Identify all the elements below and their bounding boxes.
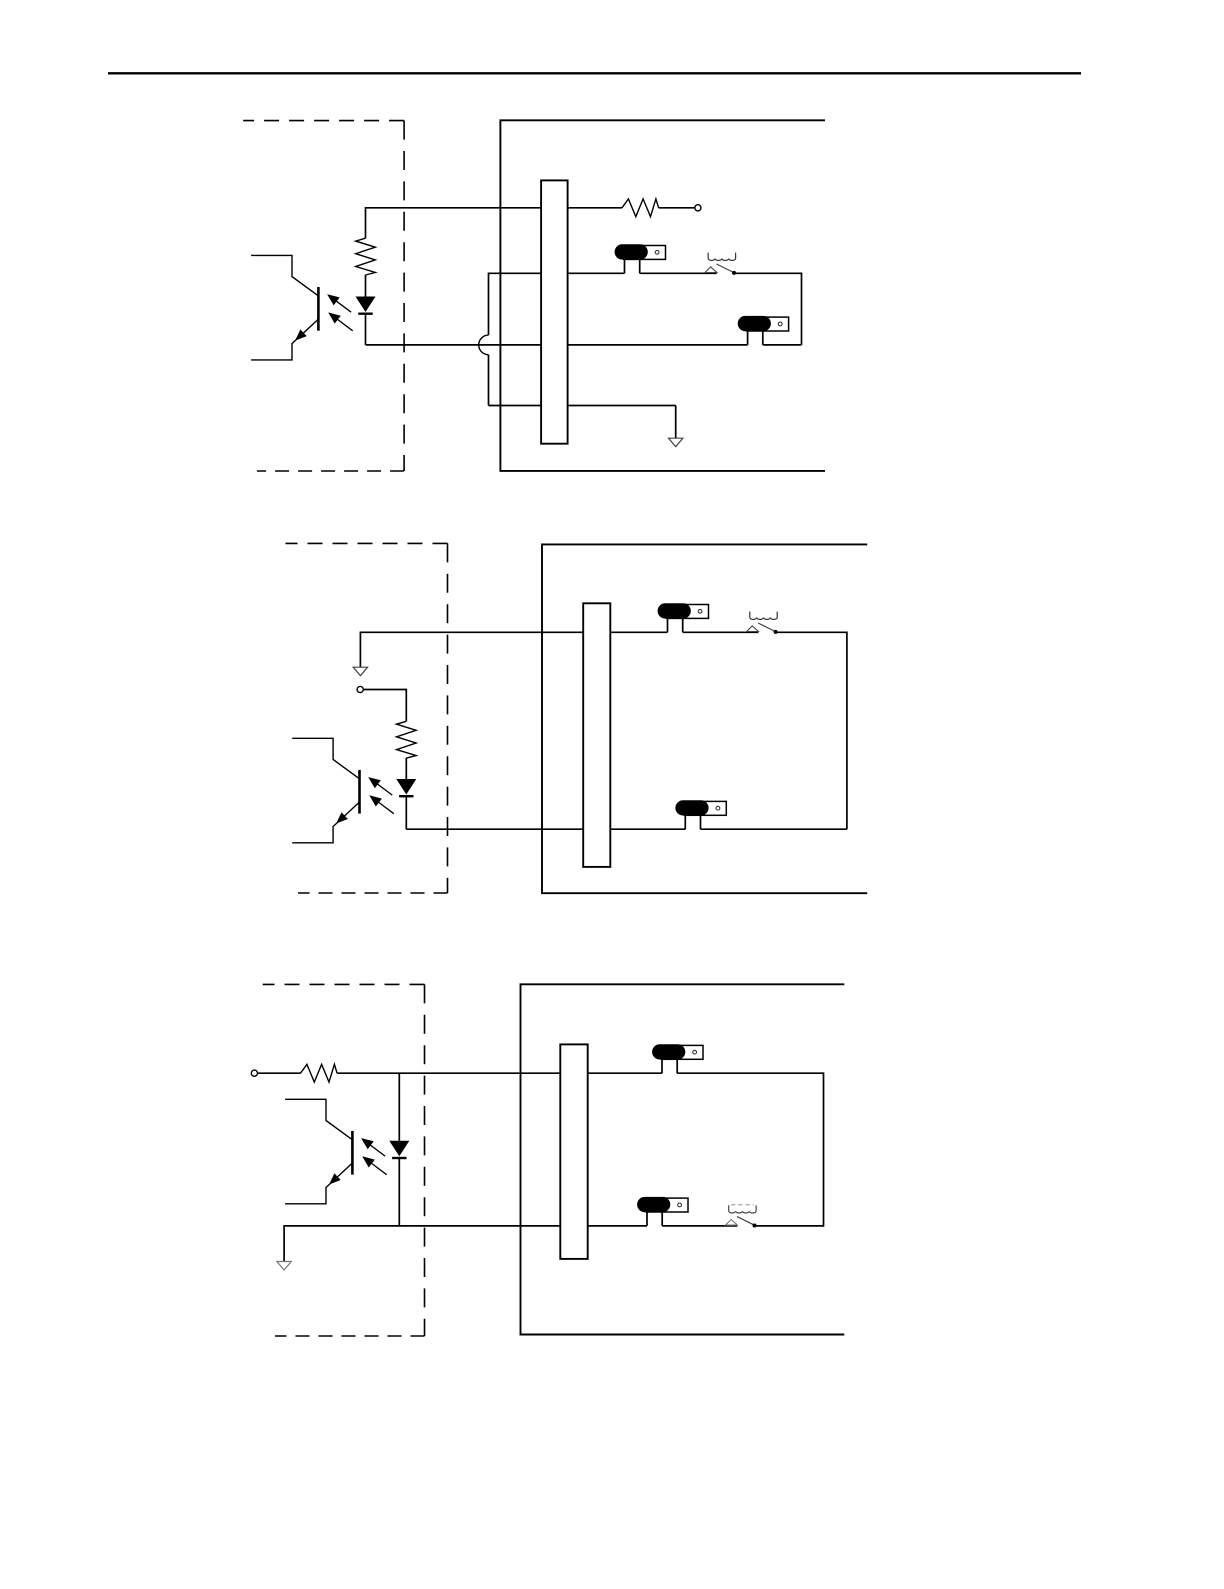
circuit 2: wire, LED D2 cathode to return net (405, 797, 407, 830)
circuit 3: return net, jumper W6 to relay contact (662, 1225, 737, 1227)
optocoupler U1 light arrow 2 (330, 314, 353, 331)
jumper W6 body (637, 1197, 670, 1212)
relay K1 contact node (732, 271, 736, 275)
optocoupler U2 phototransistor collector lead (292, 738, 359, 779)
circuit 1: wire, return net connector to jumper W2 (568, 344, 748, 346)
relay K3 coil dashed top mark (731, 1204, 754, 1206)
circuit 3: wire, drop to ground (283, 1225, 285, 1261)
circuit 3: wire, jumper W5 to right edge (677, 1072, 823, 1074)
jumper W3 body (658, 603, 691, 618)
circuit 3: wire, LED branch down (398, 1073, 400, 1141)
jumper W2 socket outline (747, 317, 789, 331)
circuit 3: inner right edge (823, 1072, 825, 1226)
resistor R1 (356, 238, 376, 275)
relay K1 moving contact blade (717, 264, 734, 273)
ground symbol (circuit 3) (277, 1262, 291, 1271)
optocoupler U1 phototransistor collector lead (251, 255, 318, 296)
jumper W1 leads (625, 259, 640, 273)
circuit 2: inner right edge (846, 632, 848, 830)
jumper W3 socket outline (667, 605, 709, 619)
circuit 1: dashed boundary, bottom edge (257, 470, 404, 472)
circuit 1: wire hop over return net (479, 335, 489, 355)
circuit 3: dashed boundary, top edge (263, 983, 425, 985)
optocoupler U3 phototransistor base bar (351, 1131, 354, 1175)
circuit 1: module enclosure box (open right) (500, 120, 825, 471)
ground symbol (circuit 1) (669, 438, 683, 447)
circuit 2: wire, top net corner to connector (360, 631, 583, 633)
circuit 1: wire, stub to ground (675, 406, 677, 439)
relay K3 moving contact blade (737, 1217, 754, 1226)
jumper W3 leads (668, 618, 683, 632)
relay K3 coil (729, 1205, 756, 1213)
circuit 2: wire, branch down to resistor R3 (405, 689, 407, 722)
relay K3 contact node (753, 1224, 757, 1228)
LED D3 cathode bar (392, 1157, 406, 1159)
optocoupler U2 light arrow 2 (371, 796, 394, 813)
terminal T1 (circuit 1 output) (695, 205, 701, 211)
circuit 1: wire, R1 to LED D1 (365, 275, 367, 297)
circuit 1: wire, LED D1 cathode down to return net (365, 314, 367, 345)
circuit 1: wire, return net to connector (366, 344, 542, 346)
circuit 3: dashed boundary, bottom edge (275, 1335, 425, 1337)
circuit 2: wire, R3 to LED D2 (405, 758, 407, 779)
jumper W1 body (615, 244, 648, 259)
optocoupler U3 phototransistor emitter lead (285, 1163, 352, 1204)
circuit 2: wire, drop to chassis arrow (359, 632, 361, 668)
jumper W1 pin hole (655, 250, 659, 254)
optocoupler U2 light arrow 1 (370, 778, 393, 795)
circuit 1: inner top wire, left edge to jumper W1 (489, 272, 625, 274)
relay K2 moving contact blade (758, 623, 775, 632)
circuit 3: wire, LED D3 cathode to return net (398, 1159, 400, 1226)
circuit 2: module enclosure box (open right) (542, 544, 867, 893)
circuit 2: return net, connector to jumper W4 (610, 828, 685, 830)
circuit 1: dashed boundary, right edge (403, 121, 405, 471)
connector J3 (560, 1044, 587, 1259)
LED D1 anode triangle (356, 297, 376, 313)
relay K1 coil (708, 253, 735, 261)
terminal T3 (circuit 3 input) (251, 1070, 257, 1076)
circuit 2: dashed boundary, bottom edge (298, 892, 448, 894)
terminal T2 (circuit 2 input) (357, 686, 363, 692)
LED D2 cathode bar (399, 795, 413, 797)
jumper W6 pin hole (678, 1203, 682, 1207)
circuit 3: wire, top net connector to jumper W5 (588, 1072, 662, 1074)
circuit 2: wire, top net connector to jumper W3 (610, 631, 667, 633)
jumper W4 pin hole (716, 806, 720, 810)
header rule (108, 72, 1081, 74)
jumper W2 leads (748, 331, 763, 345)
relay K1 fixed contact (705, 267, 717, 273)
resistor R4 (301, 1064, 338, 1082)
jumper W5 leads (662, 1059, 677, 1073)
circuit 2: return net, LED to connector (406, 828, 583, 830)
circuit 1: inner top wire, contact node to right edge (734, 272, 802, 274)
circuit 3: return net, connector to jumper W6 (588, 1225, 647, 1227)
optocoupler U3 phototransistor collector lead (285, 1099, 352, 1140)
circuit 2: return net, jumper W4 to right edge (701, 828, 847, 830)
circuit 1: inner right edge (801, 273, 803, 345)
LED D3 anode triangle (389, 1141, 409, 1157)
connector J2 (583, 603, 610, 867)
optocoupler U1 phototransistor base bar (317, 287, 320, 331)
circuit 1: wire, top net from connector to resistor R2 (568, 207, 622, 209)
optocoupler U1 light arrow 1 (329, 295, 352, 312)
LED D1 cathode bar (358, 313, 372, 315)
circuit 1: inner left edge, upper segment (488, 273, 490, 336)
circuit 2: dashed boundary, right edge (447, 543, 449, 893)
jumper W2 body (738, 316, 771, 331)
circuit 3: return net, corner to connector (284, 1225, 560, 1227)
connector J1 (541, 180, 568, 443)
optocoupler U3 light arrow 1 (363, 1139, 386, 1156)
LED D2 anode triangle (396, 779, 416, 795)
circuit 1: wire, branch down to resistor R1 (365, 207, 367, 238)
jumper W6 leads (647, 1212, 662, 1226)
circuit 2: dashed boundary, top edge (286, 542, 448, 544)
circuit 1: wire, top net from LED anode branch to connector (366, 207, 542, 209)
circuit 3: module enclosure box (open right) (521, 984, 845, 1334)
optocoupler U3 light arrow 2 (364, 1157, 387, 1174)
jumper W6 socket outline (646, 1198, 688, 1212)
jumper W5 pin hole (693, 1050, 697, 1054)
circuit 3: wire, terminal to resistor R4 (258, 1072, 301, 1074)
jumper W5 socket outline (661, 1045, 703, 1059)
jumper W4 socket outline (685, 801, 727, 815)
relay K2 fixed contact (747, 626, 759, 632)
circuit 3: wire, R4 to connector (337, 1072, 560, 1074)
circuit 2: wire, contact node to right edge (776, 631, 847, 633)
optocoupler U3 emitter arrow (329, 1173, 341, 1184)
circuit 1: wire, R2 to terminal (659, 207, 695, 209)
ground symbol (circuit 2) (353, 667, 367, 676)
optocoupler U1 phototransistor emitter lead (251, 319, 318, 360)
jumper W5 body (652, 1044, 685, 1059)
circuit 1: inner left edge, lower segment (488, 355, 490, 406)
jumper W3 pin hole (698, 609, 702, 613)
jumper W4 leads (685, 815, 700, 829)
jumper W4 body (675, 800, 708, 815)
circuit 1: dashed field-side boundary, top edge (243, 120, 404, 122)
relay K2 coil (750, 612, 777, 620)
jumper W2 pin hole (778, 322, 782, 326)
circuit 2: wire, jumper W3 to relay contact (683, 631, 759, 633)
relay K2 contact node (774, 630, 778, 634)
relay K3 fixed contact (726, 1220, 738, 1226)
circuit 1: inner top wire, jumper W1 to relay contact (640, 272, 717, 274)
optocoupler U2 phototransistor emitter lead (292, 802, 359, 843)
jumper W1 socket outline (624, 246, 666, 260)
circuit 3: dashed boundary, right edge (424, 984, 426, 1336)
circuit 1: inner bottom wire (489, 405, 676, 407)
optocoupler U2 emitter arrow (336, 812, 348, 823)
circuit 1: wire, jumper W2 to right edge (763, 344, 802, 346)
circuit 3: return net, contact node to right edge (755, 1225, 824, 1227)
circuit 2: wire, terminal to resistor branch (363, 689, 406, 691)
optocoupler U1 emitter arrow (295, 329, 307, 340)
optocoupler U2 phototransistor base bar (358, 770, 361, 814)
resistor R3 (397, 721, 417, 758)
resistor R2 (622, 199, 659, 217)
